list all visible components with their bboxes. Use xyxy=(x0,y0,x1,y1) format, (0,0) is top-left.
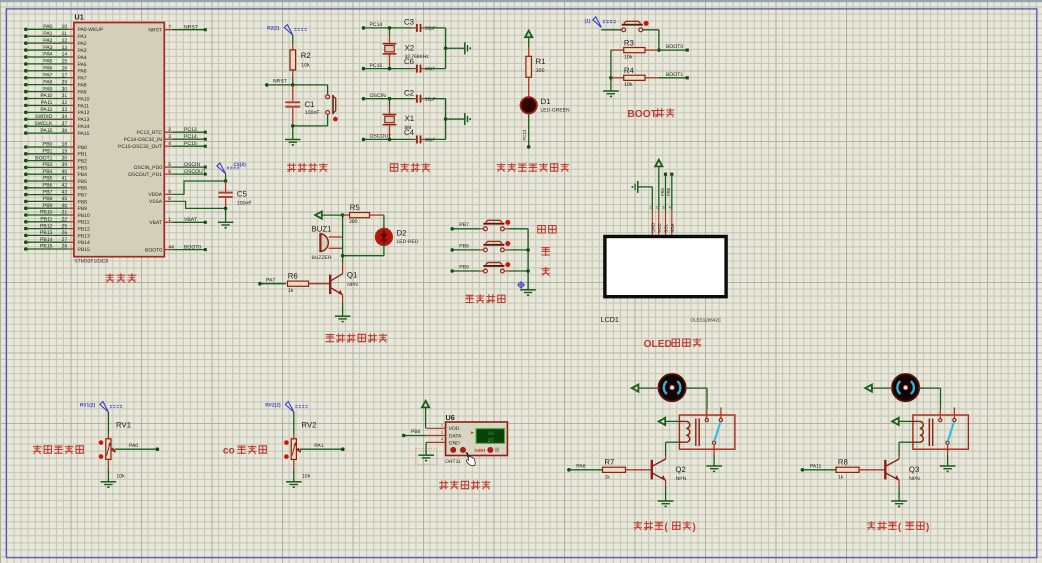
svg-text:PB11: PB11 xyxy=(40,217,52,223)
caption 独立按键 xyxy=(466,295,505,303)
buzzer BUZ1 xyxy=(312,224,343,260)
wire/net VBAT to U1 pin 1 (right) xyxy=(149,217,207,226)
svg-text:PC14: PC14 xyxy=(184,134,197,140)
power terminal (left arrow) motor xyxy=(632,385,659,392)
U1 pin 9 VDDA wire to C5 node xyxy=(148,181,225,198)
svg-text:PA10: PA10 xyxy=(40,93,52,99)
svg-text:7: 7 xyxy=(168,24,171,30)
svg-text:PB9: PB9 xyxy=(43,203,53,209)
svg-text:100nF: 100nF xyxy=(237,200,252,206)
svg-text:NRST: NRST xyxy=(184,24,198,30)
svg-text:PB4: PB4 xyxy=(43,169,53,175)
ground RV2 xyxy=(286,459,302,487)
svg-text:PB4: PB4 xyxy=(78,172,88,178)
LED D1 LED-GREEN xyxy=(521,97,571,114)
svg-text:R2: R2 xyxy=(301,51,311,60)
LCD1 pin stubs + pin labels xyxy=(649,206,675,235)
svg-text:PB7: PB7 xyxy=(78,193,88,199)
svg-text:4: 4 xyxy=(669,206,671,210)
push button PB7 xyxy=(483,220,528,231)
wire/net PA8 to U1 pin 29 (left) xyxy=(24,79,87,88)
svg-text:PA0: PA0 xyxy=(129,443,138,449)
wire/net PA6 to U1 pin 16 (left) xyxy=(24,66,87,75)
svg-text:PA5: PA5 xyxy=(43,59,52,65)
svg-text:300: 300 xyxy=(536,68,545,74)
ground below C5 xyxy=(218,208,234,227)
power terminal (left arrow) alarm xyxy=(315,212,344,219)
wire/net OSCIN to U1 pin 5 (right) xyxy=(134,162,207,171)
svg-text:2: 2 xyxy=(656,206,658,210)
wire/net PB1 to U1 pin 19 (left) xyxy=(24,149,87,158)
power terminal (up arrow) DHT11 VDD xyxy=(422,401,429,429)
svg-text:R1: R1 xyxy=(536,57,546,66)
svg-text:PA3: PA3 xyxy=(43,45,52,51)
motor (fan) for Q2 xyxy=(659,374,686,401)
resistor R3 10k xyxy=(611,38,659,60)
caption 减 xyxy=(542,267,550,275)
svg-text:(1): (1) xyxy=(585,19,591,25)
svg-text:15: 15 xyxy=(62,59,68,65)
svg-text:20: 20 xyxy=(62,155,68,161)
svg-text:3: 3 xyxy=(168,134,171,140)
svg-text:OSCIN_PD0: OSCIN_PD0 xyxy=(134,165,163,171)
svg-text:PA6: PA6 xyxy=(78,69,87,75)
DHT11 indicator dots + %RH xyxy=(451,447,499,453)
wire/net PB8 to U1 pin 45 (left) xyxy=(24,196,87,205)
resistor R5 300 xyxy=(343,203,384,225)
svg-text:PC14-OSC32_IN: PC14-OSC32_IN xyxy=(124,137,163,143)
svg-text:40: 40 xyxy=(62,169,68,175)
svg-text:BUZ1: BUZ1 xyxy=(312,224,332,233)
svg-text:BOOT0: BOOT0 xyxy=(184,244,201,250)
wire emitter to ground xyxy=(342,303,344,316)
svg-text:PB1: PB1 xyxy=(78,152,88,158)
svg-text:PB12: PB12 xyxy=(40,223,53,229)
svg-text:2: 2 xyxy=(441,431,443,435)
svg-text:PA3: PA3 xyxy=(78,48,87,54)
wire motor to relay common xyxy=(919,388,941,409)
svg-text:PB9: PB9 xyxy=(78,206,88,212)
power terminal (left arrow) motor xyxy=(865,385,892,392)
wire/net PB14 to U1 pin 27 (left) xyxy=(24,237,90,246)
svg-text:SWDIO: SWDIO xyxy=(35,114,52,120)
svg-text:PA7: PA7 xyxy=(43,72,52,78)
svg-text:PA13: PA13 xyxy=(78,117,90,123)
svg-text:PC15: PC15 xyxy=(184,141,197,147)
svg-text:BOOT1: BOOT1 xyxy=(666,72,683,78)
svg-text:22: 22 xyxy=(62,217,68,223)
wiper wire net PA1 xyxy=(296,443,344,452)
net PA11 wire xyxy=(801,464,836,472)
caption relay xyxy=(634,522,663,530)
svg-text:27: 27 xyxy=(62,237,68,243)
transistor Q2 NPN xyxy=(652,456,687,487)
svg-text:GND: GND xyxy=(650,223,655,233)
ground alarm xyxy=(335,316,351,321)
svg-text:BOOT: BOOT xyxy=(627,109,657,120)
blue marker R2(2) xyxy=(267,25,307,36)
svg-text:31: 31 xyxy=(62,93,68,99)
wire/net BOOT1 to U1 pin 20 (left) xyxy=(24,155,87,164)
svg-text:PA9: PA9 xyxy=(78,89,87,95)
svg-text:PB12: PB12 xyxy=(78,227,90,233)
resistor R6 1k xyxy=(288,271,330,294)
svg-text:PC15-OSC32_OUT: PC15-OSC32_OUT xyxy=(118,144,162,150)
wire/net PB6 to U1 pin 42 (left) xyxy=(24,183,87,192)
wire relay contact to ground xyxy=(706,444,722,471)
svg-text:PB9: PB9 xyxy=(459,264,469,270)
svg-text:100nF: 100nF xyxy=(305,110,320,116)
potentiometer RV2 10k xyxy=(284,412,316,480)
svg-text:Q2: Q2 xyxy=(675,465,685,474)
svg-text:BOOT0: BOOT0 xyxy=(666,44,683,50)
svg-text:PA12: PA12 xyxy=(78,110,90,116)
svg-text:NPN: NPN xyxy=(676,476,687,482)
svg-text:25: 25 xyxy=(62,223,68,229)
wiper wire net PA0 xyxy=(111,443,159,452)
svg-text:11: 11 xyxy=(62,31,67,37)
svg-text:): ) xyxy=(692,522,695,533)
wire/net PA9 to U1 pin 30 (left) xyxy=(24,86,87,95)
resistor R8 1k xyxy=(836,457,884,480)
key row net PB7 xyxy=(450,222,483,230)
wire D2 to collector node xyxy=(341,245,384,258)
svg-text:PB13: PB13 xyxy=(78,233,90,239)
blue origin marker xyxy=(517,281,525,289)
svg-text:PB8: PB8 xyxy=(459,243,469,249)
svg-text:U6: U6 xyxy=(446,413,455,422)
caption 温湿度模块 xyxy=(440,481,490,489)
wire/net PB5 to U1 pin 41 (left) xyxy=(24,176,87,185)
svg-text:OSCOUT_PD1: OSCOUT_PD1 xyxy=(128,172,162,178)
push button PB8 xyxy=(483,241,528,252)
DHT11 green display xyxy=(471,429,504,444)
svg-text:OLED: OLED xyxy=(644,339,672,350)
blue marker RV1(2) xyxy=(80,402,123,413)
blue marker RV2(2) xyxy=(265,402,308,413)
boot push button xyxy=(601,21,659,32)
svg-text:Q3: Q3 xyxy=(909,465,919,474)
wire/net BOOT0 to U1 pin 44 (right) xyxy=(145,244,207,253)
svg-text:PB6: PB6 xyxy=(78,186,88,192)
svg-text:PB14: PB14 xyxy=(40,237,53,243)
relay RL (Q3 branch) xyxy=(913,408,969,450)
svg-text:PB8: PB8 xyxy=(78,199,88,205)
svg-text:PA5: PA5 xyxy=(78,62,87,68)
svg-text:PB10: PB10 xyxy=(78,213,90,219)
svg-text:45: 45 xyxy=(62,196,68,202)
motor (fan) for Q3 xyxy=(892,374,919,401)
svg-text:SDA: SDA xyxy=(670,224,675,233)
caption 设置 xyxy=(538,226,556,234)
caption 声光报警电路 xyxy=(326,334,387,342)
svg-text:BUZZER: BUZZER xyxy=(312,255,332,261)
svg-text:PB0: PB0 xyxy=(666,187,671,196)
wire/net PB7 to U1 pin 43 (left) xyxy=(24,189,87,198)
terminal + wire PB1 (SCL) xyxy=(660,173,667,210)
wire/net PC13 to U1 pin 2 (right) xyxy=(137,127,207,136)
svg-text:PA12: PA12 xyxy=(40,107,52,113)
net PC15 wire xyxy=(362,63,413,71)
svg-text:PA7: PA7 xyxy=(266,278,275,284)
svg-text:34: 34 xyxy=(62,114,68,120)
svg-text:10k: 10k xyxy=(624,54,633,60)
net NRST wire + junction xyxy=(265,79,328,95)
wire/net PB3 to U1 pin 39 (left) xyxy=(24,162,87,171)
net PA8 wire xyxy=(567,464,602,472)
svg-text:PA4: PA4 xyxy=(43,52,52,58)
wire/net PA4 to U1 pin 14 (left) xyxy=(24,52,87,61)
svg-text:PB11: PB11 xyxy=(78,220,90,226)
svg-text:4: 4 xyxy=(441,438,443,442)
right vertical wire of keys + junctions xyxy=(526,229,530,290)
svg-text:1k: 1k xyxy=(838,474,844,480)
svg-text:R7: R7 xyxy=(604,457,614,466)
svg-text:10k: 10k xyxy=(301,63,310,69)
svg-text:LED-GREEN: LED-GREEN xyxy=(541,107,571,113)
svg-text:C1: C1 xyxy=(305,100,315,109)
right vertical wire + junction xyxy=(444,28,465,69)
svg-text:26: 26 xyxy=(62,230,68,236)
svg-text:10: 10 xyxy=(62,24,68,30)
svg-text:PB1: PB1 xyxy=(660,187,665,196)
svg-text:PB7: PB7 xyxy=(43,189,53,195)
svg-text:R6: R6 xyxy=(288,271,298,280)
svg-text:10k: 10k xyxy=(116,474,125,480)
IC U1 STM32F103C8 chip body xyxy=(74,13,164,265)
svg-text:14: 14 xyxy=(62,52,68,58)
capacitor C3 12pF xyxy=(404,18,446,32)
wire R5 to D2 xyxy=(383,215,385,229)
wire/net PC15 to U1 pin 4 (right) xyxy=(118,141,207,150)
svg-text:X2: X2 xyxy=(405,43,415,52)
svg-text:2: 2 xyxy=(168,127,171,133)
svg-text:(: ( xyxy=(898,522,902,533)
svg-text:C2: C2 xyxy=(404,88,414,97)
svg-text:OLED128642C: OLED128642C xyxy=(691,317,722,322)
svg-text:BOOT1: BOOT1 xyxy=(35,155,52,161)
svg-text:PC14: PC14 xyxy=(370,22,383,28)
net OSCOUT wire xyxy=(362,134,413,142)
svg-text:PB8: PB8 xyxy=(43,196,53,202)
svg-text:4: 4 xyxy=(168,141,171,147)
svg-text:PB15: PB15 xyxy=(40,244,53,250)
svg-text:NPN: NPN xyxy=(347,282,358,288)
wire/net PA2 to U1 pin 12 (left) xyxy=(24,38,87,47)
svg-text:PA15: PA15 xyxy=(78,131,90,137)
svg-text:D1: D1 xyxy=(541,97,551,106)
power terminal (left arrow) relay coil xyxy=(892,418,913,425)
svg-text:OSCIN: OSCIN xyxy=(184,162,200,168)
svg-text:RV2(2): RV2(2) xyxy=(265,403,281,409)
transistor Q1 NPN xyxy=(330,263,358,304)
wire/net PA1 to U1 pin 11 (left) xyxy=(24,31,87,40)
U1 pin 8 VSSA wire to C5 node xyxy=(149,196,226,208)
power terminal (up arrow) OLED VCC xyxy=(655,160,662,210)
wire/net PB12 to U1 pin 25 (left) xyxy=(24,223,90,232)
svg-text:1: 1 xyxy=(441,424,443,428)
svg-text:1k: 1k xyxy=(288,288,294,294)
wire/net PA10 to U1 pin 31 (left) xyxy=(24,93,90,102)
right vertical wire + junction xyxy=(444,99,465,140)
svg-text:C6: C6 xyxy=(404,57,414,66)
svg-text:LED-RED: LED-RED xyxy=(397,239,419,245)
svg-text:12pF: 12pF xyxy=(425,97,436,103)
svg-text:D2: D2 xyxy=(397,228,407,237)
svg-text:NPN: NPN xyxy=(909,476,920,482)
svg-text:12pF: 12pF xyxy=(425,26,436,32)
svg-text:9: 9 xyxy=(168,189,171,195)
svg-text:VBAT: VBAT xyxy=(184,217,197,223)
resistor R4 10k xyxy=(609,66,659,88)
svg-text:PC13: PC13 xyxy=(184,127,197,133)
wire net PC13 below D1 xyxy=(522,114,530,149)
svg-text:PC13_RTC: PC13_RTC xyxy=(137,130,163,136)
left vertical wire to ground (BOOT) xyxy=(610,50,612,91)
svg-text:Q1: Q1 xyxy=(347,271,357,280)
svg-text:PA6: PA6 xyxy=(43,66,52,72)
svg-text:PB2: PB2 xyxy=(78,159,88,165)
wire/net PA3 to U1 pin 13 (left) xyxy=(24,45,87,54)
svg-text:19: 19 xyxy=(62,149,68,155)
svg-text:27: 27 xyxy=(488,438,494,444)
svg-text:28: 28 xyxy=(62,244,68,250)
resistor R2 10k xyxy=(290,35,311,85)
svg-text:PB5: PB5 xyxy=(43,176,53,182)
wire coil to collector xyxy=(899,442,913,456)
wire/net PA11 to U1 pin 32 (left) xyxy=(24,100,89,109)
svg-text:U1: U1 xyxy=(75,13,84,22)
label DHT11 xyxy=(445,459,461,465)
U6 GND wire + ground (selected) xyxy=(416,442,437,464)
wire/net OSCOUT to U1 pin 6 (right) xyxy=(128,169,207,178)
wire/net PB0 to U1 pin 18 (left) xyxy=(24,142,87,151)
wire/net PB10 to U1 pin 21 (left) xyxy=(24,210,90,219)
DHT11 module U6 body xyxy=(426,413,507,456)
svg-text:C3: C3 xyxy=(404,18,414,27)
wire/net PB13 to U1 pin 26 (left) xyxy=(24,230,90,239)
svg-text:PA2: PA2 xyxy=(43,38,52,44)
ground (sideways) OLED GND xyxy=(632,181,652,210)
resistor R1 300 xyxy=(526,56,546,97)
wire emitter to ground xyxy=(658,487,674,506)
svg-text:32: 32 xyxy=(62,100,68,106)
svg-text:10k: 10k xyxy=(624,82,633,88)
wire emitter to ground xyxy=(891,487,907,506)
caption 复位电路 xyxy=(288,163,328,171)
svg-text:PA14: PA14 xyxy=(78,124,90,130)
svg-text:39: 39 xyxy=(62,162,68,168)
svg-text:8: 8 xyxy=(168,196,171,202)
svg-text:VBAT: VBAT xyxy=(149,220,162,226)
svg-text:PB7: PB7 xyxy=(459,222,469,228)
svg-text:46: 46 xyxy=(62,203,68,209)
wire relay contact to ground xyxy=(940,444,956,471)
net OSCIN wire xyxy=(362,93,413,101)
resistor R7 1k xyxy=(603,457,651,480)
push button PB9 xyxy=(483,262,528,273)
svg-text:R8: R8 xyxy=(838,457,848,466)
svg-text:co: co xyxy=(223,446,235,457)
svg-text:C5: C5 xyxy=(237,190,248,199)
svg-text:5: 5 xyxy=(168,162,171,168)
svg-text:3: 3 xyxy=(662,206,664,210)
svg-text:SWCLK: SWCLK xyxy=(34,121,53,127)
caption 晶振电路 xyxy=(390,163,429,171)
svg-text:DHT11: DHT11 xyxy=(445,459,461,465)
capacitor C6 12pF xyxy=(404,57,446,73)
svg-text:29: 29 xyxy=(62,79,68,85)
wire/net PC14 to U1 pin 3 (right) xyxy=(124,134,207,143)
wire/net SWCLK to U1 pin 37 (left) xyxy=(24,121,90,130)
wire/net SWDIO to U1 pin 34 (left) xyxy=(24,114,90,123)
net BOOT1 wire + terminal xyxy=(659,72,689,79)
svg-text:PA8: PA8 xyxy=(576,464,585,470)
caption 烟雾值调节 xyxy=(33,445,83,453)
svg-text:NRST: NRST xyxy=(273,79,287,85)
svg-text:41: 41 xyxy=(62,176,68,182)
reset push button xyxy=(326,95,338,126)
ground reset circuit xyxy=(285,140,301,145)
wire coil to collector xyxy=(666,442,680,456)
svg-text:PB15: PB15 xyxy=(78,247,90,253)
svg-text:VCC: VCC xyxy=(657,223,662,232)
svg-text:16: 16 xyxy=(62,66,68,72)
svg-text:PA11: PA11 xyxy=(810,464,822,470)
wire/net PB11 to U1 pin 22 (left) xyxy=(24,217,90,226)
svg-text:44: 44 xyxy=(168,244,174,250)
svg-text:VDDA: VDDA xyxy=(148,192,162,198)
svg-text:OSCIN: OSCIN xyxy=(370,93,386,99)
svg-text:PA7: PA7 xyxy=(78,76,87,82)
svg-text:(: ( xyxy=(664,522,668,533)
blue marker C5(2) xyxy=(217,162,246,174)
net PC14 wire xyxy=(362,22,413,30)
svg-text:33: 33 xyxy=(62,107,68,113)
ground BOOT circuit xyxy=(603,91,619,96)
svg-text:R2(2): R2(2) xyxy=(267,26,280,32)
svg-text:RV1(2): RV1(2) xyxy=(80,403,96,409)
crystal X2 32.768KHz xyxy=(383,28,430,69)
svg-text:OSCOUT: OSCOUT xyxy=(184,169,206,175)
wire/net PB15 to U1 pin 28 (left) xyxy=(24,244,90,253)
svg-text:30: 30 xyxy=(62,86,68,92)
blue marker (1) for boot button xyxy=(585,17,617,28)
svg-text:VDD: VDD xyxy=(449,426,460,432)
svg-text:1k: 1k xyxy=(605,474,611,480)
svg-text:PB5: PB5 xyxy=(78,179,88,185)
wire/net PA12 to U1 pin 33 (left) xyxy=(24,107,90,116)
transistor Q3 NPN xyxy=(885,456,920,487)
wire/net PB9 to U1 pin 46 (left) xyxy=(24,203,87,212)
capacitor C4 12pF xyxy=(404,128,446,144)
svg-text:LCD1: LCD1 xyxy=(601,315,619,324)
svg-text:PA10: PA10 xyxy=(78,96,90,102)
svg-text:18: 18 xyxy=(62,142,68,148)
wire button to BOOT0 node xyxy=(657,30,661,52)
svg-text:PC13: PC13 xyxy=(522,129,527,141)
svg-text:PB1: PB1 xyxy=(43,149,53,155)
key row net PB8 xyxy=(450,243,483,251)
power terminal (left arrow) relay coil xyxy=(659,418,680,425)
svg-text:PA4: PA4 xyxy=(78,55,87,61)
svg-text:R4: R4 xyxy=(624,66,635,75)
svg-text:BOOT0: BOOT0 xyxy=(145,248,162,254)
svg-text:R3: R3 xyxy=(624,38,634,47)
svg-text:PB6: PB6 xyxy=(411,429,421,435)
svg-text:PB0: PB0 xyxy=(43,142,53,148)
svg-text:PB0: PB0 xyxy=(78,145,88,151)
